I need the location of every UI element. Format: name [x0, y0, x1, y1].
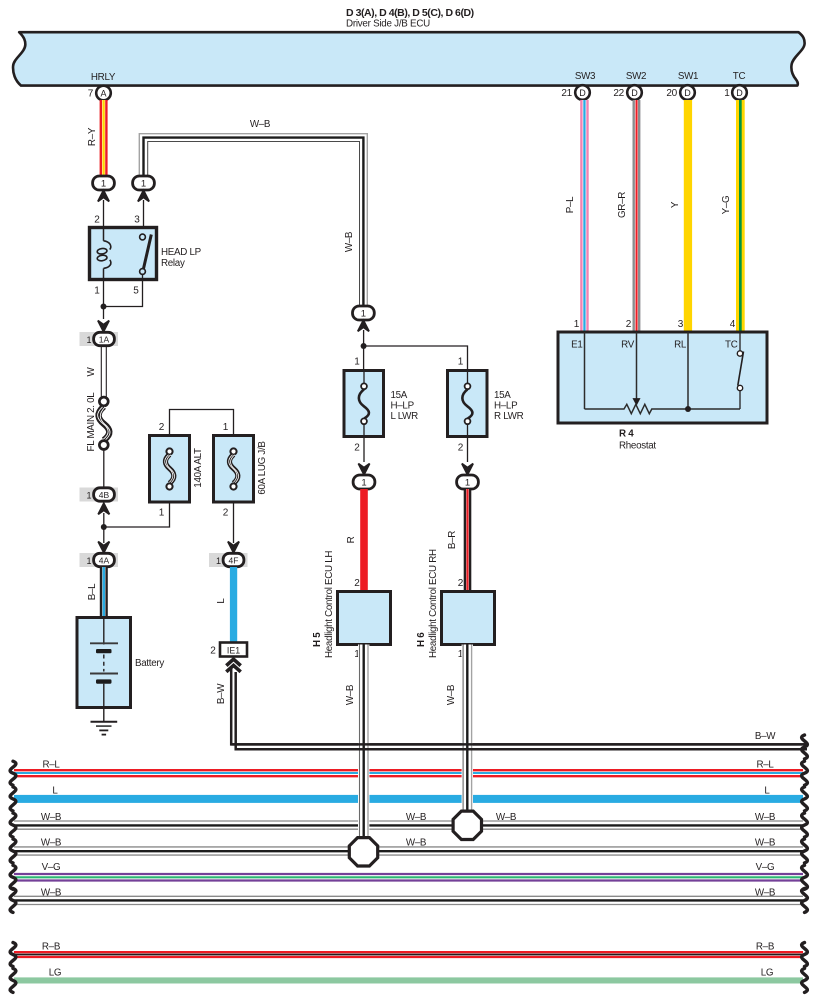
svg-text:15A: 15A: [391, 390, 408, 401]
arrow into oval: [358, 464, 369, 475]
svg-text:E1: E1: [571, 340, 582, 351]
svg-text:1: 1: [216, 556, 221, 566]
svg-text:3: 3: [134, 215, 140, 226]
junction: [101, 304, 107, 310]
svg-text:H–LP: H–LP: [391, 401, 415, 412]
svg-text:R: R: [346, 536, 357, 543]
bus L: [14, 786, 803, 803]
svg-text:22: 22: [613, 88, 624, 99]
wire W (1A to fusible link): [86, 346, 106, 398]
svg-text:A: A: [100, 89, 106, 99]
wire GR-R (SW2 to rheostat): [617, 100, 640, 332]
svg-text:W–B: W–B: [345, 684, 356, 705]
bus W-B 1: [14, 812, 803, 829]
svg-text:4: 4: [730, 319, 736, 330]
wire 140A ALT to 60A LUG J/B: [170, 410, 234, 436]
octagon junction (W-B row 1): [453, 811, 481, 839]
wire 4B to junction and battery: [103, 513, 105, 543]
svg-text:20: 20: [666, 88, 677, 99]
wire B-W (IE1 down to bus): [216, 668, 807, 749]
svg-text:1: 1: [724, 88, 730, 99]
svg-text:21: 21: [561, 88, 572, 99]
svg-text:GR–R: GR–R: [617, 192, 628, 218]
svg-text:4F: 4F: [229, 556, 239, 566]
connector 1A: [80, 332, 119, 346]
svg-text:Driver Side J/B ECU: Driver Side J/B ECU: [346, 19, 430, 30]
arrow into oval: [462, 464, 473, 475]
wire to fuse junction: [363, 330, 365, 371]
svg-text:W–B: W–B: [41, 838, 62, 849]
svg-text:1: 1: [159, 508, 165, 519]
wire W-B (relay pin 3 up, over to fuses): [139, 119, 367, 306]
wire B-R (to H6): [447, 489, 471, 592]
svg-text:B–W: B–W: [755, 731, 776, 742]
svg-text:FL MAIN 2. 0L: FL MAIN 2. 0L: [86, 392, 97, 452]
svg-text:W: W: [86, 366, 97, 376]
svg-text:Y–G: Y–G: [721, 196, 732, 215]
svg-text:2: 2: [458, 443, 464, 454]
svg-text:Relay: Relay: [161, 258, 185, 269]
svg-text:2: 2: [458, 578, 464, 589]
bus LG: [14, 968, 803, 984]
fuse 60A LUG J/B: [214, 422, 269, 519]
wire P-L (SW3 to rheostat): [565, 100, 589, 332]
wire 60A to 4F: [233, 502, 235, 543]
wire B-L (4A to battery): [87, 567, 108, 618]
internal RV line with arrow: [636, 332, 638, 400]
svg-text:7: 7: [88, 89, 94, 100]
wire W-B (H6 down to octagon): [446, 645, 473, 814]
svg-text:H 6: H 6: [416, 632, 427, 647]
connector 4A: [80, 553, 119, 567]
svg-text:1: 1: [354, 357, 360, 368]
svg-text:2: 2: [354, 443, 360, 454]
connector IE1: [210, 643, 247, 657]
svg-text:L: L: [764, 786, 770, 797]
svg-text:W–B: W–B: [41, 812, 62, 823]
bus end waves left: [10, 761, 16, 992]
svg-text:1: 1: [223, 422, 229, 433]
svg-text:1: 1: [94, 286, 100, 297]
svg-text:W–B: W–B: [755, 812, 776, 823]
svg-text:SW1: SW1: [678, 71, 698, 82]
wire relay pin 1: [103, 280, 105, 320]
svg-text:D: D: [736, 88, 743, 98]
arrow into 1A: [98, 321, 109, 332]
wire Y (SW1 to rheostat): [670, 100, 692, 332]
svg-text:HEAD LP: HEAD LP: [161, 247, 202, 258]
svg-text:R–L: R–L: [42, 760, 60, 771]
internal RL line: [687, 332, 689, 409]
svg-text:W–B: W–B: [755, 887, 776, 898]
svg-text:1: 1: [465, 478, 470, 489]
svg-text:D: D: [684, 88, 691, 98]
bus W-B 2: [14, 838, 803, 856]
svg-text:60A LUG J/B: 60A LUG J/B: [257, 441, 268, 495]
svg-text:4B: 4B: [99, 490, 110, 500]
junction: [361, 343, 367, 349]
fuse 140A ALT: [150, 422, 205, 519]
wire junction to 140A ALT: [104, 502, 170, 527]
svg-text:1: 1: [361, 478, 366, 489]
svg-text:D: D: [579, 88, 586, 98]
svg-text:R–B: R–B: [42, 942, 61, 953]
junction: [101, 524, 107, 530]
connector oval 1 (L LWR out): [353, 475, 375, 489]
svg-text:TC: TC: [733, 71, 746, 82]
fusible link FL MAIN 2.0L: [86, 392, 110, 488]
battery: [77, 618, 164, 708]
svg-text:SW3: SW3: [575, 71, 596, 82]
svg-text:2: 2: [94, 215, 100, 226]
wire L (4F to IE1): [216, 567, 237, 643]
svg-text:15A: 15A: [494, 390, 511, 401]
connector oval 1 (W-B): [133, 176, 155, 201]
svg-text:1: 1: [458, 357, 464, 368]
octagon junction (W-B row 2): [349, 838, 377, 866]
svg-text:3: 3: [678, 319, 684, 330]
bus R-L: [14, 760, 803, 777]
svg-text:Battery: Battery: [135, 658, 164, 669]
fuse 15A H-LP R LWR: [448, 371, 524, 463]
relay HEAD LP: [90, 228, 202, 280]
bus end waves right: [802, 735, 808, 992]
svg-text:L: L: [216, 598, 227, 604]
svg-text:IE1: IE1: [227, 645, 240, 655]
svg-text:R LWR: R LWR: [494, 411, 524, 422]
wire relay pin 5: [104, 274, 143, 307]
svg-text:W–B: W–B: [344, 231, 355, 252]
internal E1 line: [584, 332, 586, 409]
svg-text:L: L: [52, 786, 58, 797]
svg-text:R 4: R 4: [619, 429, 634, 440]
svg-text:2: 2: [354, 578, 360, 589]
wire relay pin 2: [103, 200, 105, 228]
svg-text:V–G: V–G: [756, 862, 775, 873]
svg-text:W–B: W–B: [406, 812, 427, 823]
bus R-B: [14, 942, 803, 958]
svg-text:2: 2: [159, 422, 165, 433]
wire Y-G (TC to rheostat): [721, 100, 745, 332]
svg-text:1: 1: [101, 179, 106, 190]
connector oval 1 (W-B to fuses): [353, 306, 375, 331]
svg-text:R–B: R–B: [756, 942, 775, 953]
svg-text:Headlight Control ECU LH: Headlight Control ECU LH: [324, 551, 335, 658]
svg-text:5: 5: [133, 286, 139, 297]
svg-text:2: 2: [626, 319, 632, 330]
svg-text:1A: 1A: [99, 335, 110, 345]
svg-text:Rheostat: Rheostat: [619, 441, 656, 452]
arrow into 4A: [98, 542, 109, 553]
bus W-B 3: [14, 887, 803, 904]
svg-text:Y: Y: [670, 201, 681, 208]
svg-text:LG: LG: [761, 968, 773, 979]
svg-text:D: D: [631, 88, 638, 98]
svg-text:2: 2: [210, 646, 216, 657]
svg-text:W–B: W–B: [496, 812, 517, 823]
svg-text:D 3(A), D 4(B), D 5(C), D 6(D): D 3(A), D 4(B), D 5(C), D 6(D): [346, 7, 474, 19]
svg-text:W–B: W–B: [755, 838, 776, 849]
rheostat R4 box: [558, 332, 767, 423]
svg-text:RL: RL: [674, 340, 687, 351]
svg-text:W–B: W–B: [406, 838, 427, 849]
svg-text:1: 1: [141, 179, 146, 190]
connector oval 1 (R-Y): [93, 176, 115, 201]
arrow into 4F: [228, 542, 239, 553]
fuse 15A H-LP L LWR: [344, 371, 418, 463]
svg-text:B–L: B–L: [87, 583, 98, 600]
svg-text:1: 1: [86, 335, 91, 345]
svg-text:1: 1: [86, 491, 91, 501]
svg-text:L LWR: L LWR: [391, 411, 419, 422]
svg-text:1: 1: [574, 319, 580, 330]
svg-text:H–LP: H–LP: [494, 401, 518, 412]
svg-text:1: 1: [86, 556, 91, 566]
internal bottom rail with resistor: [585, 404, 741, 413]
ground: [91, 708, 118, 735]
svg-text:1: 1: [361, 309, 366, 320]
internal TC switch: [739, 332, 741, 351]
connector oval 1 (R LWR out): [457, 475, 479, 489]
svg-text:TC: TC: [725, 340, 738, 351]
wire R (to H5): [346, 489, 368, 592]
svg-text:SW2: SW2: [626, 71, 646, 82]
svg-text:V–G: V–G: [42, 862, 61, 873]
svg-text:RV: RV: [621, 340, 635, 351]
svg-text:LG: LG: [49, 968, 61, 979]
svg-text:140A ALT: 140A ALT: [193, 448, 204, 488]
wire W-B (H5 down to octagon): [345, 645, 369, 841]
svg-text:HRLY: HRLY: [91, 72, 116, 83]
Driver Side J/B ECU band: [13, 32, 805, 85]
ECU H6 box: [416, 549, 495, 660]
wire R-Y (pin A to relay connector): [87, 100, 108, 176]
svg-text:R–L: R–L: [756, 760, 774, 771]
arrow chevrons into IE1: [226, 659, 240, 665]
connector 4F: [209, 553, 248, 567]
connector 4B: [80, 488, 119, 515]
svg-text:R–Y: R–Y: [87, 127, 98, 146]
svg-text:4A: 4A: [99, 556, 110, 566]
wire junction to R LWR fuse: [364, 346, 468, 371]
svg-text:Headlight Control ECU RH: Headlight Control ECU RH: [428, 549, 439, 658]
svg-text:2: 2: [223, 508, 229, 519]
junction: [685, 406, 691, 412]
svg-text:B–W: B–W: [216, 683, 227, 704]
ECU H5 box: [312, 551, 391, 660]
svg-text:P–L: P–L: [565, 196, 576, 213]
bus V-G: [14, 862, 803, 881]
bus B-W overdraw: [231, 731, 807, 749]
svg-text:H 5: H 5: [312, 632, 323, 647]
svg-text:W–B: W–B: [41, 887, 62, 898]
svg-text:B–R: B–R: [447, 531, 458, 549]
wire relay pin 3: [143, 200, 145, 234]
svg-text:W–B: W–B: [446, 684, 457, 705]
svg-text:W–B: W–B: [250, 119, 271, 130]
